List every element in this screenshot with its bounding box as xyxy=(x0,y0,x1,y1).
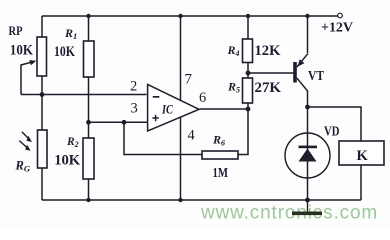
diode VD circle xyxy=(285,133,330,178)
wire R1-R2 link xyxy=(88,77,90,138)
op-amp plus sign xyxy=(152,115,158,121)
wire collector node to diode xyxy=(307,107,309,200)
svg-text:VD: VD xyxy=(324,125,340,140)
wire pin7 supply lead xyxy=(180,16,182,101)
transistor VT (PNP) xyxy=(293,54,308,92)
relay K body xyxy=(339,141,384,165)
resistor R6 body xyxy=(202,151,238,159)
wire R5 bottom lead xyxy=(247,103,249,109)
wire node B: pin3 net xyxy=(89,121,149,123)
svg-text:R1: R1 xyxy=(64,26,77,41)
svg-text:IC: IC xyxy=(161,102,173,117)
wire collector to relay xyxy=(308,107,362,141)
svg-text:RG: RG xyxy=(15,159,31,174)
resistor R1 body xyxy=(84,41,95,77)
svg-text:10K: 10K xyxy=(10,43,33,59)
resistor R4 body xyxy=(243,39,253,63)
svg-text:1M: 1M xyxy=(213,166,229,181)
svg-text:VT: VT xyxy=(308,69,325,84)
wire RP top lead xyxy=(41,16,43,37)
wire op-amp output to R5 node xyxy=(200,108,249,110)
svg-text:R2: R2 xyxy=(66,136,79,149)
resistor R2 body xyxy=(83,138,94,179)
potentiometer RP wiper arrow xyxy=(29,60,36,65)
svg-text:R6: R6 xyxy=(212,133,225,148)
svg-text:RP: RP xyxy=(9,23,23,38)
wire R2 bottom lead xyxy=(88,179,90,200)
svg-text:R5: R5 xyxy=(227,80,240,95)
svg-text:12K: 12K xyxy=(255,43,281,59)
wire pin4 ground lead xyxy=(180,117,182,200)
wire RG top lead xyxy=(41,95,43,131)
wire base wire xyxy=(248,72,294,74)
op-amp U1 (IC) triangle xyxy=(148,85,199,132)
svg-text:www.cntronics.com: www.cntronics.com xyxy=(200,203,378,224)
diode VD cathode bar xyxy=(299,146,318,149)
wire top rail +12V xyxy=(42,15,338,17)
wire bottom ground rail xyxy=(42,199,361,201)
svg-text:10K: 10K xyxy=(54,153,80,169)
svg-text:K: K xyxy=(357,148,369,164)
op-amp minus sign xyxy=(153,96,160,98)
+12V terminal circle xyxy=(338,13,343,18)
wire relay bottom lead xyxy=(360,165,362,200)
wire VT collector vertical xyxy=(307,91,309,107)
svg-text:R4: R4 xyxy=(227,43,240,58)
wire node A: pin2 net xyxy=(21,94,147,96)
resistor RP body xyxy=(37,37,47,76)
svg-text:7: 7 xyxy=(185,72,193,88)
svg-text:10K: 10K xyxy=(54,44,75,60)
svg-text:4: 4 xyxy=(188,128,196,144)
wire R4 bottom to base node xyxy=(247,63,249,79)
svg-text:27K: 27K xyxy=(255,80,282,96)
wire RP wiper L-link xyxy=(21,62,34,95)
svg-text:2: 2 xyxy=(130,79,137,95)
wire R1 top lead xyxy=(88,16,90,41)
svg-text:3: 3 xyxy=(131,101,138,117)
diode VD triangle xyxy=(299,149,317,162)
wire R4 top lead xyxy=(247,16,249,39)
wire VT emitter lead vertical xyxy=(307,16,309,53)
photoresistor light arrows xyxy=(19,132,29,149)
ground xyxy=(307,200,309,212)
photoresistor RG body xyxy=(38,130,48,168)
wire RP bottom lead xyxy=(41,76,43,95)
resistor R5 body xyxy=(243,78,253,103)
svg-text:+12V: +12V xyxy=(321,20,353,35)
wire feedback riser right xyxy=(238,109,248,155)
wire feedback riser left xyxy=(124,122,202,154)
svg-text:6: 6 xyxy=(199,90,206,106)
wire RG bottom lead xyxy=(41,168,43,200)
